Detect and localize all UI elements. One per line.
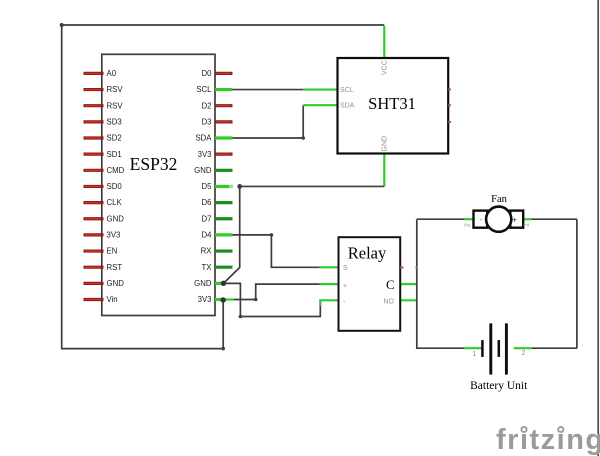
svg-text:SD1: SD1 — [107, 150, 122, 159]
ESP32 left pins — [84, 73, 104, 299]
svg-text:SCL: SCL — [340, 87, 354, 94]
svg-text:SDA: SDA — [340, 103, 355, 110]
svg-text:D3: D3 — [202, 118, 212, 127]
pin SCL — [215, 88, 233, 91]
node SDA bend — [301, 136, 305, 140]
wire: battery right lead — [531, 347, 577, 349]
pin SD3 — [84, 120, 104, 123]
pin SDA — [215, 136, 233, 139]
green tail into relay - — [320, 300, 338, 306]
wire: relay NO to fan loop — [400, 299, 417, 301]
svg-text:TX: TX — [202, 263, 213, 272]
svg-text:VCC: VCC — [382, 60, 389, 75]
op-amp U1 ESP32 body — [102, 54, 215, 315]
svg-text:2: 2 — [522, 350, 526, 357]
svg-text:1: 1 — [524, 223, 531, 227]
svg-text:RST: RST — [107, 263, 123, 272]
wire: fan right lead — [523, 218, 532, 220]
pin RX — [215, 249, 233, 252]
left pin highlight cores — [85, 73, 101, 299]
wire: SCL ESP32 to SHT31 — [232, 89, 304, 91]
battery long plate 1 — [489, 323, 492, 374]
pin GND — [84, 217, 104, 220]
svg-text:SD2: SD2 — [107, 134, 122, 143]
green tail into relay + — [320, 283, 339, 285]
logo i-dot ring 2 — [557, 426, 564, 433]
svg-text:+: + — [512, 216, 517, 225]
wire: SDA ESP32 to SHT31 — [232, 105, 304, 138]
pin D4 — [215, 233, 233, 236]
node top-left corner — [60, 23, 64, 27]
wire: relay C to fan loop — [400, 283, 417, 285]
node GND junction — [221, 281, 226, 286]
svg-text:SD0: SD0 — [107, 182, 123, 191]
wire: green VCC drop into SHT31 — [383, 26, 385, 58]
relay right red tick — [400, 267, 403, 269]
pin 3V3b — [215, 298, 222, 301]
ESP32 left pin labels — [107, 69, 125, 304]
fan right brush box — [510, 211, 523, 228]
svg-text:ESP32: ESP32 — [130, 154, 178, 174]
svg-text:D6: D6 — [202, 198, 212, 207]
pin 3V3r — [215, 153, 233, 156]
svg-text:GND: GND — [194, 166, 212, 175]
svg-text:SDA: SDA — [195, 134, 212, 143]
svg-text:RSV: RSV — [107, 85, 124, 94]
sensor U2 SHT31 body — [338, 58, 449, 154]
wire: SHT31 GND green drop — [383, 154, 385, 186]
wire: GND run to ESP32 GND — [223, 186, 384, 283]
wire: right vertical — [576, 219, 578, 348]
pin D6 — [215, 201, 233, 204]
pin SD0 — [84, 185, 104, 188]
svg-text:GND: GND — [107, 279, 125, 288]
green tail into relay S — [320, 266, 339, 268]
pin D2 — [215, 104, 233, 107]
logo i-dot ring 1 — [520, 426, 527, 433]
pin D3 — [215, 120, 233, 123]
pin GNDb — [215, 282, 223, 285]
wire: 3V3 to relay + — [226, 284, 320, 299]
svg-text:D7: D7 — [202, 214, 212, 223]
pin D0 — [215, 72, 233, 75]
pin A0 — [84, 72, 104, 75]
svg-text:NO: NO — [384, 298, 395, 305]
pin D5 — [215, 185, 229, 188]
svg-text:GND: GND — [194, 279, 212, 288]
svg-text:2: 2 — [465, 223, 472, 227]
battery short plate 1 — [481, 340, 484, 357]
pin CLK — [84, 201, 104, 204]
ESP32 right pin labels — [194, 69, 212, 304]
svg-text:D5: D5 — [202, 182, 213, 191]
svg-text:RX: RX — [201, 247, 213, 256]
svg-text:RSV: RSV — [107, 101, 124, 110]
svg-text:GND: GND — [107, 214, 125, 223]
pin CMD — [84, 169, 104, 172]
pin EN — [84, 249, 104, 252]
pin GNDr — [215, 169, 233, 172]
svg-text:SD3: SD3 — [107, 118, 122, 127]
svg-text:D4: D4 — [202, 231, 213, 240]
svg-text:GND: GND — [382, 136, 389, 152]
pin RSV — [84, 88, 104, 91]
svg-text:-: - — [480, 215, 483, 224]
pin Vin — [84, 298, 104, 301]
ESP32 right pins — [215, 73, 233, 299]
fan left brush box — [474, 211, 488, 228]
svg-text:Fan: Fan — [491, 194, 508, 205]
svg-text:1: 1 — [473, 351, 477, 358]
svg-text:SCL: SCL — [196, 85, 212, 94]
svg-text:3V3: 3V3 — [198, 295, 212, 304]
node bottom corner — [221, 347, 225, 351]
node 3V3 junction — [221, 297, 226, 302]
fan rotor circle — [486, 207, 511, 232]
svg-text:C: C — [386, 277, 395, 292]
svg-text:3V3: 3V3 — [198, 150, 212, 159]
pin RST — [84, 266, 104, 269]
svg-text:fritzing: fritzing — [496, 424, 600, 456]
svg-text:+: + — [343, 283, 347, 290]
pin SD2 — [84, 136, 104, 139]
wire: GND to relay - — [223, 283, 320, 316]
svg-text:3V3: 3V3 — [107, 231, 121, 240]
wire: battery left green — [464, 347, 482, 349]
svg-text:D2: D2 — [202, 101, 212, 110]
svg-text:SHT31: SHT31 — [368, 94, 416, 113]
pin GND2 — [84, 282, 104, 285]
pin 3V3 — [84, 233, 104, 236]
pin stubs right (unused) — [448, 89, 451, 91]
svg-text:CMD: CMD — [107, 166, 125, 175]
battery long plate 2 — [505, 323, 508, 374]
svg-text:Battery Unit: Battery Unit — [470, 380, 528, 392]
svg-text:Relay: Relay — [348, 244, 387, 263]
pin D7 — [215, 217, 233, 220]
relay K1 body — [339, 237, 401, 331]
battery short plate 2 — [498, 340, 501, 357]
border right edge — [597, 0, 599, 456]
pin RSV2 — [84, 104, 104, 107]
pin SD1 — [84, 153, 104, 156]
wire: D4 to relay S — [233, 235, 320, 267]
pin TX — [215, 266, 233, 269]
node D5-line junction — [237, 184, 242, 189]
wire: 3V3 to SHT31 VCC loop (left/top) — [62, 25, 385, 349]
svg-text:Vin: Vin — [107, 295, 118, 304]
svg-text:S: S — [343, 265, 348, 272]
svg-text:EN: EN — [107, 247, 118, 256]
wire: fan left lead — [417, 218, 465, 220]
svg-text:D0: D0 — [202, 69, 213, 78]
svg-text:A0: A0 — [107, 69, 117, 78]
wire: fan/battery left vertical — [417, 219, 465, 348]
svg-text:CLK: CLK — [107, 198, 123, 207]
